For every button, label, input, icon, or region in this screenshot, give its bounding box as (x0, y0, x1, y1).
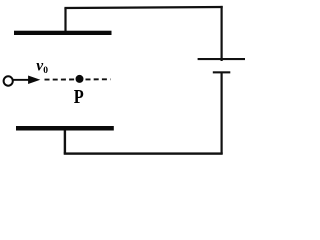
velocity arrow head (28, 76, 40, 85)
charged particle (source circle) (4, 76, 13, 85)
wire: bottom plate to bottom rail (64, 131, 66, 154)
node P (dot) (76, 75, 84, 83)
battery negative terminal (short plate) (213, 71, 231, 73)
wire: bottom rail (64, 152, 223, 154)
wire: top plate to top rail (64, 8, 66, 31)
wire: battery negative down (221, 72, 223, 154)
svg-text:0: 0 (43, 66, 48, 76)
wire: top rail (64, 7, 222, 8)
battery positive terminal (long plate) (198, 58, 245, 60)
top capacitor plate (14, 31, 112, 35)
svg-text:P: P (74, 86, 84, 108)
dashed trajectory line (45, 78, 111, 80)
velocity arrow shaft (13, 79, 30, 81)
bottom capacitor plate (16, 126, 114, 131)
wire: top rail down to battery positive (221, 6, 223, 61)
